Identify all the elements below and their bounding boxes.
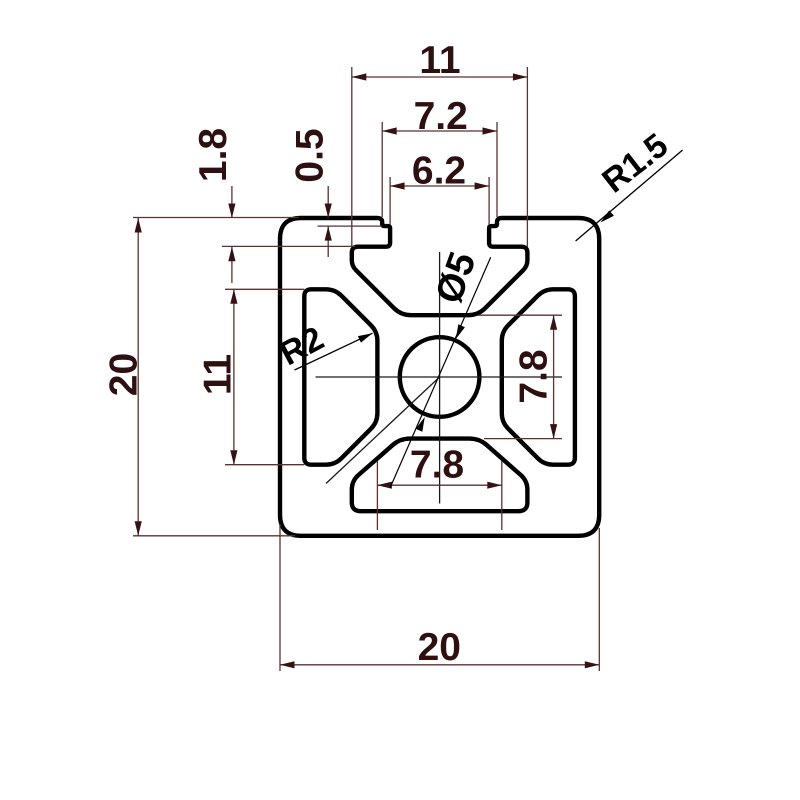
- dim 20 left: [133, 535, 295, 537]
- svg-text:11: 11: [419, 39, 460, 82]
- dim 11 top: [351, 67, 353, 247]
- svg-text:7.2: 7.2: [414, 95, 468, 138]
- dim 1.8: [133, 217, 299, 219]
- svg-text:1.8: 1.8: [192, 128, 235, 182]
- hole diameter label Ø5: [390, 257, 491, 488]
- dim 6.2: [389, 177, 391, 225]
- dim 7.8 bottom: [376, 461, 378, 530]
- horizontal centerline: [316, 376, 563, 378]
- center hole: [400, 337, 480, 417]
- bottom cavity: [352, 439, 528, 512]
- svg-text:20: 20: [103, 353, 146, 396]
- svg-text:6.2: 6.2: [412, 150, 466, 193]
- svg-text:7.8: 7.8: [513, 349, 556, 403]
- radius label R1.5: [576, 150, 683, 241]
- dim 11 left: [225, 288, 304, 290]
- diagonal centerline: [326, 377, 440, 484]
- dim 7.8 right: [478, 314, 562, 316]
- dim 20 bottom: [279, 524, 281, 671]
- svg-text:20: 20: [418, 626, 461, 669]
- profile outer outline with T-slot: [280, 218, 599, 536]
- svg-text:0.5: 0.5: [289, 128, 332, 182]
- right cavity: [502, 289, 575, 464]
- dim 7.2: [381, 122, 383, 217]
- radius label R2: [295, 333, 373, 370]
- left cavity: [304, 289, 377, 464]
- svg-text:7.8: 7.8: [410, 444, 464, 487]
- vertical centerline: [439, 252, 441, 504]
- dim 0.5: [318, 225, 383, 227]
- svg-text:11: 11: [197, 354, 240, 395]
